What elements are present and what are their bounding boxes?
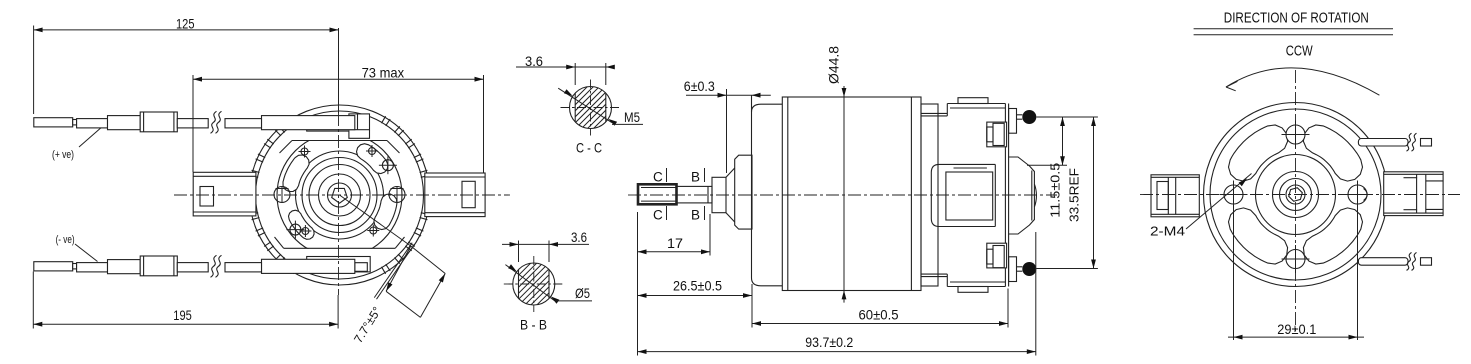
svg-text:B - B: B - B	[520, 317, 547, 333]
svg-text:Ø5: Ø5	[575, 285, 590, 301]
svg-text:2-M4: 2-M4	[1150, 224, 1185, 238]
svg-text:C - C: C - C	[576, 140, 602, 156]
svg-text:93.7±0.2: 93.7±0.2	[805, 334, 853, 350]
svg-text:M5: M5	[624, 109, 640, 125]
svg-text:DIRECTION OF ROTATION: DIRECTION OF ROTATION	[1224, 11, 1369, 27]
svg-text:195: 195	[173, 307, 192, 323]
svg-text:29±0.1: 29±0.1	[1277, 321, 1316, 337]
svg-text:11.5±0.5: 11.5±0.5	[1048, 163, 1063, 218]
svg-text:73 max: 73 max	[362, 65, 405, 81]
svg-text:C: C	[653, 170, 663, 185]
svg-text:B: B	[691, 208, 700, 223]
svg-text:3.6: 3.6	[571, 229, 587, 245]
svg-text:17: 17	[667, 235, 683, 251]
svg-text:B: B	[691, 170, 700, 185]
svg-text:(+ ve): (+ ve)	[52, 149, 74, 161]
svg-text:C: C	[653, 208, 663, 223]
svg-text:33.5REF: 33.5REF	[1067, 168, 1082, 222]
svg-text:125: 125	[176, 16, 195, 32]
svg-text:60±0.5: 60±0.5	[859, 307, 899, 323]
svg-text:7.7°±5°: 7.7°±5°	[351, 304, 384, 346]
svg-text:CCW: CCW	[1286, 43, 1314, 60]
svg-text:Ø44.8: Ø44.8	[826, 46, 842, 84]
svg-text:3.6: 3.6	[525, 53, 543, 69]
svg-text:(- ve): (- ve)	[56, 234, 75, 246]
svg-text:26.5±0.5: 26.5±0.5	[673, 278, 722, 294]
svg-text:6±0.3: 6±0.3	[684, 78, 715, 94]
